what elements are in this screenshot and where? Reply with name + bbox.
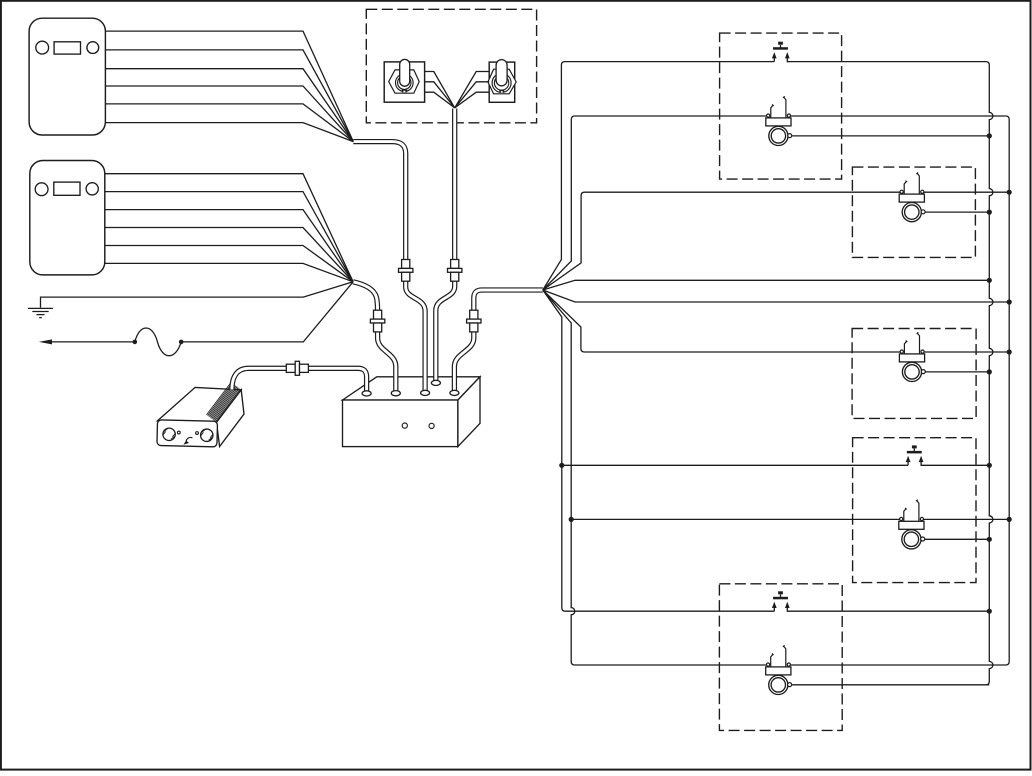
node: pushbutton SW4 on bus 1 bbox=[987, 463, 992, 468]
wire: controller 1 lead 6 bbox=[105, 123, 353, 142]
wire: feeder bus B (to vertical bus 2) bbox=[543, 290, 1009, 302]
node: feeder bus B on bus 2 bbox=[1007, 299, 1012, 304]
toggle switch S1 bbox=[384, 59, 424, 102]
wire: branch to horn H4 bbox=[571, 518, 901, 520]
wire: feeder to horn H1 bbox=[543, 116, 768, 290]
wire: controller 1 lead 2 bbox=[105, 50, 353, 142]
node: pushbutton SW5 on bus 1 bbox=[987, 609, 992, 614]
node: horn H2 gong on bus 1 bbox=[987, 210, 992, 215]
node: horn H4 on bus 2 bbox=[1007, 517, 1012, 522]
node: horn H1 gong on bus 1 bbox=[987, 133, 992, 138]
vertical bus 2 (from horn H1 to horn H5) bbox=[789, 116, 1009, 665]
horn H4 bbox=[899, 500, 1009, 549]
wire: toggle S2 lead 2 bbox=[455, 82, 490, 108]
wire: feeder to horn H3 bbox=[543, 290, 902, 352]
dashed enclosure: horn station 1 bbox=[720, 33, 842, 179]
inline connector J5 (amplifier cable) bbox=[286, 361, 308, 375]
wire: toggle S2 lead 1 bbox=[455, 72, 490, 108]
node: feeder bus A on bus 1 bbox=[987, 278, 992, 283]
wire: open lead to arrow bbox=[51, 341, 135, 343]
dashed enclosure: horn station 4 bbox=[853, 438, 976, 583]
cable: amplifier to junction box bbox=[232, 368, 367, 393]
inline connector J3 (controller 2 cable) bbox=[370, 310, 384, 332]
cable: controller 1 to junction box bbox=[353, 142, 425, 393]
horn H2 bbox=[899, 173, 1009, 222]
horn H1 bbox=[766, 96, 990, 145]
wire: squiggle (slack loop) bbox=[135, 328, 181, 356]
node: horn H2 on bus 2 bbox=[1007, 190, 1012, 195]
inline connector J2 (toggle panel cable) bbox=[448, 260, 462, 282]
node: squiggle right junction bbox=[179, 340, 184, 345]
port 1 (amplifier cable) bbox=[362, 391, 371, 396]
horn H5 bbox=[766, 645, 990, 694]
junction box U1 bbox=[343, 377, 481, 447]
node: horn H3 on bus 2 bbox=[1007, 349, 1012, 354]
remote controller 1 bbox=[29, 18, 105, 135]
wire: branch to pushbutton SW4 bbox=[562, 464, 908, 466]
wire: controller 2 lead 4 bbox=[105, 228, 353, 282]
wire: controller 1 lead 4 bbox=[105, 86, 353, 142]
wire: toggle S1 lead 3 bbox=[425, 92, 455, 108]
wire: controller 2 lead 2 bbox=[105, 192, 353, 282]
wire: controller 1 lead 3 bbox=[105, 69, 353, 142]
wire: toggle S2 lead 3 bbox=[455, 92, 490, 108]
wire: controller 2 lead 1 bbox=[105, 174, 353, 282]
node: horn H4 gong on bus 1 bbox=[987, 537, 992, 542]
port 4 (horn feed cable) bbox=[450, 390, 459, 395]
node: horn H3 gong on bus 1 bbox=[987, 369, 992, 374]
wire: controller 2 lead 5 bbox=[105, 246, 353, 282]
cable: toggle panel to junction box bbox=[436, 109, 455, 383]
node: H4 feeder tap bbox=[569, 517, 574, 522]
wire: feeder to pushbutton SW1 bbox=[543, 62, 775, 290]
dashed enclosure: horn station 2 bbox=[852, 167, 975, 257]
remote controller 2 bbox=[30, 161, 105, 275]
port 3 (controller 1 cable) bbox=[421, 390, 430, 395]
inline connector J4 (horn feed cable) bbox=[467, 310, 481, 332]
wire: feeder to pushbuttons SW4/SW5 bbox=[543, 290, 775, 611]
amplifier box U2 bbox=[157, 382, 244, 447]
wire: open lead to controller 2 junction bbox=[181, 282, 353, 342]
ground symbol bbox=[28, 308, 53, 317]
dashed enclosure: horn station 3 bbox=[852, 329, 976, 419]
dashed enclosure: horn station 5 bbox=[719, 584, 842, 731]
wire: controller 1 lead 5 bbox=[105, 104, 353, 142]
node: SW4 feeder tap bbox=[559, 463, 564, 468]
arrowhead (open lead) bbox=[39, 339, 52, 344]
port 5 (toggle panel cable) bbox=[431, 380, 440, 385]
vertical bus 1 (from pushbutton SW1 to horn H5 gong) bbox=[787, 62, 993, 685]
pushbutton switch SW4 bbox=[906, 445, 990, 465]
wire: controller 1 lead 1 bbox=[105, 31, 353, 142]
port 2 (controller 2 cable) bbox=[391, 391, 400, 396]
cable: controller 2 to junction box bbox=[353, 282, 396, 393]
wire: ground lead bbox=[41, 282, 354, 308]
node: squiggle left junction bbox=[133, 340, 138, 345]
wire: toggle S1 lead 1 bbox=[425, 72, 455, 108]
wire: toggle S1 lead 2 bbox=[425, 82, 455, 108]
wire: feeder to horns H4/H5 (with hop) bbox=[543, 290, 768, 665]
wire: controller 2 lead 6 bbox=[105, 263, 353, 281]
pushbutton switch SW1 bbox=[772, 42, 790, 62]
cable: horn circuit feed to junction box bbox=[454, 290, 542, 393]
wire: feeder to horn H2 bbox=[543, 192, 902, 290]
wire: controller 2 lead 3 bbox=[105, 210, 353, 282]
pushbutton switch SW5 bbox=[772, 591, 989, 611]
horn H3 bbox=[899, 332, 1009, 381]
wire: feeder bus A (to vertical bus 1) bbox=[543, 280, 990, 290]
toggle switch S2 bbox=[488, 60, 516, 103]
inline connector J1 (controller 1 cable) bbox=[399, 260, 413, 282]
dashed enclosure: toggle switch panel bbox=[366, 9, 536, 123]
